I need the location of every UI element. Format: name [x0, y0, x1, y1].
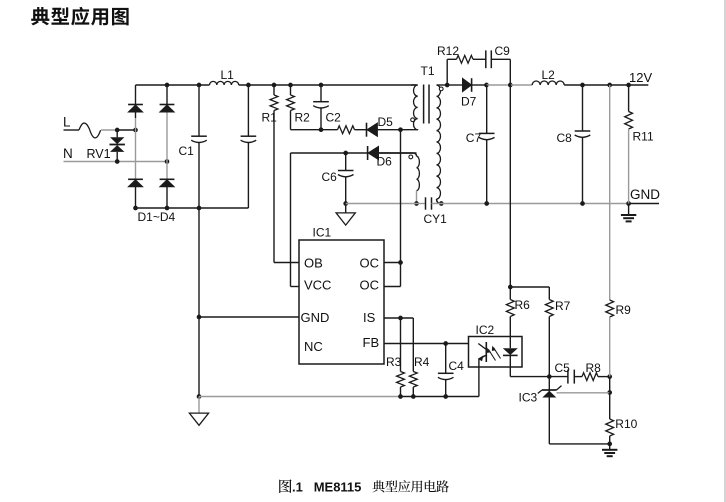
svg-text:R11: R11 [633, 130, 654, 144]
node aux phase dot [409, 155, 413, 159]
svg-text:VCC: VCC [304, 278, 331, 293]
light arrows [494, 348, 501, 359]
inductor L2 [532, 81, 564, 85]
svg-text:D7: D7 [461, 95, 477, 109]
node bottom rail C1 junction [197, 206, 202, 211]
svg-text:C6: C6 [322, 170, 338, 184]
node FB C4 junction [443, 341, 448, 346]
node primary phase dot [411, 118, 415, 122]
varistor RV1 [116, 130, 118, 137]
node drain junction [398, 127, 403, 132]
svg-text:C5: C5 [555, 361, 571, 375]
node sense junction [508, 83, 513, 88]
wire control gnd rail [199, 396, 401, 398]
wire primary bottom lead [401, 129, 418, 131]
node R8 divider junction [607, 374, 612, 379]
node secondary gnd junction [439, 201, 444, 206]
wire secondary gnd rail [432, 203, 629, 205]
capacitor C8 [582, 85, 584, 131]
inductor L1 [210, 81, 239, 85]
node R1 junction [272, 83, 277, 88]
node OC1 junction [398, 260, 403, 265]
svg-text:C9: C9 [495, 44, 511, 58]
wire left ground bus [198, 208, 200, 397]
svg-text:GND: GND [630, 187, 660, 202]
node C7 gnd junction [484, 201, 489, 206]
optocoupler IC2 box [469, 337, 523, 368]
resistor R9 [609, 85, 611, 300]
wire L2 to 12V [564, 84, 648, 86]
node L junction [115, 128, 120, 133]
page right border [724, 0, 726, 502]
svg-text:IC2: IC2 [476, 323, 495, 337]
diode D2 [160, 104, 175, 106]
resistor R2 [290, 85, 292, 95]
snubber R12 C9 branch [446, 59, 448, 85]
ground earth GND [628, 204, 630, 216]
svg-text:R3: R3 [386, 355, 402, 369]
resistor R3 [400, 318, 402, 372]
svg-text:C1: C1 [179, 144, 195, 158]
wire secondary top lead [437, 84, 448, 86]
node R2 junction [288, 83, 293, 88]
node REF junction [607, 390, 612, 395]
transformer T1 primary winding [411, 84, 418, 86]
wire IC3 ref line [557, 392, 610, 394]
svg-text:R1: R1 [262, 111, 278, 125]
node C8 gnd junction [580, 201, 585, 206]
svg-text:N: N [63, 146, 73, 161]
wire snubber node line [291, 129, 338, 131]
wire sense to L2 [510, 84, 532, 86]
node R11 gnd junction [626, 201, 631, 206]
svg-text:D5: D5 [378, 115, 394, 129]
svg-text:RV1: RV1 [87, 147, 111, 161]
svg-text:IC1: IC1 [313, 226, 332, 240]
capacitor C4 [445, 344, 447, 374]
wire to sense node [487, 84, 511, 86]
wire aux bottom lead [416, 191, 418, 204]
wire C5 to R8 [574, 376, 582, 378]
transformer T1 aux winding [379, 152, 413, 154]
node C2 bottom junction [319, 127, 324, 132]
wire bridge left column [135, 85, 137, 105]
resistor R7 [548, 287, 550, 300]
node top rail bridge-right junction [165, 83, 170, 88]
resistor R11 [628, 85, 630, 112]
fuse F1 wavy [79, 123, 101, 138]
capacitor C2 [320, 85, 322, 102]
resistor R4 [412, 318, 414, 372]
node secondary phase dot [439, 87, 443, 91]
diode D5 [366, 123, 368, 137]
svg-text:OC: OC [360, 256, 380, 271]
wire drain to OC [400, 130, 402, 287]
resistor R10 [609, 393, 611, 420]
wire RV1 to bridge [117, 129, 135, 131]
capacitor C7 [486, 85, 488, 133]
wire R6R7 header [510, 286, 549, 288]
wire secondary output line [447, 84, 462, 86]
node snubber left junction [445, 83, 450, 88]
svg-text:T1: T1 [421, 64, 435, 78]
svg-text:ME8115: ME8115 [314, 480, 362, 495]
capacitor C9 [485, 50, 487, 68]
wire LED to C5 node [510, 376, 549, 378]
node top rail C1 junction [197, 83, 202, 88]
svg-text:R12: R12 [437, 44, 459, 58]
svg-text:D1~D4: D1~D4 [138, 210, 176, 224]
shunt regulator IC3 [548, 377, 550, 444]
wire sense line down [509, 85, 511, 287]
wire bridge bottom rail [136, 207, 249, 209]
svg-text:.1: .1 [292, 480, 303, 495]
wire N line [64, 161, 168, 163]
wire L to RV1 [101, 129, 117, 131]
node R11 junction [626, 83, 631, 88]
svg-text:IC3: IC3 [519, 391, 538, 405]
svg-text:R10: R10 [615, 417, 637, 431]
capacitor C1b filter [247, 85, 249, 136]
wire top rail L1 to transformer [239, 84, 417, 86]
capacitor C6 [345, 153, 347, 171]
capacitor C5 [549, 376, 568, 378]
op-amp U1 IC1 box [299, 240, 384, 364]
svg-text:R9: R9 [616, 303, 632, 317]
title 典型应用图 [31, 7, 49, 25]
svg-text:D6: D6 [377, 155, 393, 169]
capacitor CY1 [425, 197, 427, 209]
resistor R1 [273, 85, 275, 95]
svg-text:C8: C8 [557, 131, 573, 145]
wire R5 to D5 [355, 129, 367, 131]
diode D6 [367, 146, 369, 160]
diode D4 [160, 178, 175, 180]
node C1b junction [246, 83, 251, 88]
node IS junction [398, 316, 403, 321]
capacitor C1 [198, 85, 200, 136]
wire top rail bridge to L1 [136, 84, 210, 86]
resistor R6 [509, 287, 511, 300]
wire D7 cathode segment [472, 84, 487, 86]
wire primary gnd rail [346, 203, 417, 205]
svg-text:OB: OB [304, 256, 323, 271]
wire D5 to drain node [378, 129, 401, 131]
node C6 junction [343, 151, 348, 156]
svg-text:R7: R7 [555, 299, 571, 313]
svg-text:GND: GND [301, 310, 330, 325]
node C8 junction [580, 83, 585, 88]
wire D6 anode to aux winding [379, 152, 417, 154]
caption 图.1 ME8115 [279, 479, 291, 493]
svg-text:NC: NC [304, 339, 323, 354]
wire R8 to divider [598, 376, 610, 378]
wire secondary bottom lead [437, 199, 442, 204]
transformer T1 secondary winding [437, 85, 441, 199]
svg-text:C4: C4 [449, 359, 465, 373]
node bridge AC1 junction [133, 128, 138, 133]
svg-text:CY1: CY1 [424, 212, 448, 226]
ground earth bottom [609, 444, 611, 450]
wire emitter to gnd rail [478, 367, 480, 397]
resistor R8 [582, 373, 598, 381]
svg-text:IS: IS [363, 310, 376, 325]
node bridge AC2 junction [165, 159, 170, 164]
wire bridge right column [166, 85, 168, 105]
svg-text:OC: OC [360, 278, 380, 293]
svg-text:C2: C2 [326, 111, 342, 125]
resistor R12 [457, 55, 473, 63]
wire divider segment [609, 377, 611, 393]
svg-text:R8: R8 [586, 361, 602, 375]
wire D6 cathode to VCC riser [291, 152, 368, 154]
ground signal triangle [198, 397, 200, 414]
svg-text:L1: L1 [221, 68, 235, 82]
svg-text:FB: FB [363, 335, 380, 350]
node C6 ground junction [343, 201, 348, 206]
node C2 junction [319, 83, 324, 88]
node C7 junction [484, 83, 489, 88]
diode D7 [462, 78, 471, 92]
transistor Q phototransistor [485, 342, 487, 362]
wire R12 to C9 [473, 58, 486, 60]
svg-text:R6: R6 [515, 298, 531, 312]
wire L lead [64, 129, 80, 131]
resistor R5 snubber [338, 126, 355, 134]
svg-text:L: L [63, 115, 71, 130]
node gnd bottom junction [607, 442, 612, 447]
wire C9 to sense node [491, 58, 510, 60]
svg-text:R2: R2 [295, 111, 311, 125]
node R6 R7 header junction [508, 285, 513, 290]
node R9 junction [607, 83, 612, 88]
svg-text:L2: L2 [542, 68, 556, 82]
ground primary triangle [345, 204, 347, 213]
node GND pin junction [197, 315, 202, 320]
LED opto diode [503, 348, 518, 355]
node C5 junction [547, 374, 552, 379]
node N junction RV1 [115, 159, 120, 164]
wire IC3 anode bottom [549, 443, 609, 445]
node left bus bottom junction [197, 394, 202, 399]
svg-text:C7: C7 [466, 131, 482, 145]
transformer T1 core [423, 85, 425, 124]
svg-text:R4: R4 [414, 355, 430, 369]
node aux gnd junction [414, 201, 419, 206]
diode D3 [128, 178, 143, 180]
svg-text:12V: 12V [629, 70, 652, 85]
diode D1 [128, 104, 143, 106]
